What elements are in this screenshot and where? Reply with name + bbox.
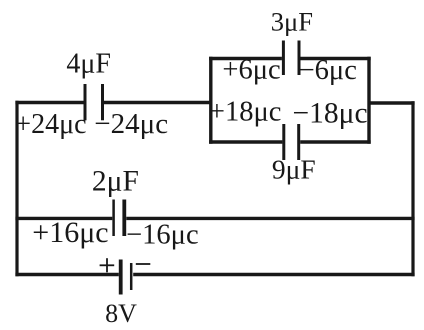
wire middle left — [15, 217, 112, 220]
wire top middle — [104, 101, 212, 104]
svg-text:−16μc: −16μc — [126, 220, 199, 251]
battery plus sign — [100, 258, 115, 272]
svg-text:−6μc: −6μc — [299, 55, 357, 86]
svg-text:3μF: 3μF — [271, 6, 313, 36]
svg-text:9μF: 9μF — [272, 154, 316, 185]
wire left vertical — [15, 101, 18, 276]
svg-text:+6μc: +6μc — [222, 55, 280, 86]
wire top-left horizontal — [15, 101, 84, 104]
svg-text:−18μc: −18μc — [293, 97, 368, 129]
wire bottom right — [133, 273, 414, 276]
svg-text:8V: 8V — [105, 299, 137, 328]
battery minus sign — [136, 263, 151, 265]
node box right edge — [367, 57, 370, 144]
wire box top rail right — [301, 57, 371, 60]
wire box output to right — [369, 101, 415, 104]
wire right vertical — [411, 101, 414, 276]
svg-text:4μF: 4μF — [66, 49, 111, 80]
capacitor C2 3μF plates — [283, 41, 299, 76]
svg-text:+16μc: +16μc — [32, 216, 108, 249]
wire bottom left — [15, 273, 118, 276]
capacitor C4 2μF plates — [114, 200, 125, 237]
svg-text:2μF: 2μF — [92, 166, 139, 198]
wire middle right — [126, 217, 414, 220]
wire box bottom rail left — [209, 140, 282, 143]
capacitor C3 9μF plates — [284, 124, 299, 160]
svg-text:+18μc: +18μc — [209, 97, 282, 128]
wire box bottom rail right — [300, 140, 371, 143]
svg-text:−24μc: −24μc — [94, 108, 168, 140]
node box left edge — [209, 57, 212, 144]
svg-text:+24μc: +24μc — [15, 109, 86, 140]
capacitor C1 4μF plates — [85, 84, 103, 120]
wire box top rail left — [209, 57, 282, 60]
battery B1 8V plates — [121, 260, 132, 295]
